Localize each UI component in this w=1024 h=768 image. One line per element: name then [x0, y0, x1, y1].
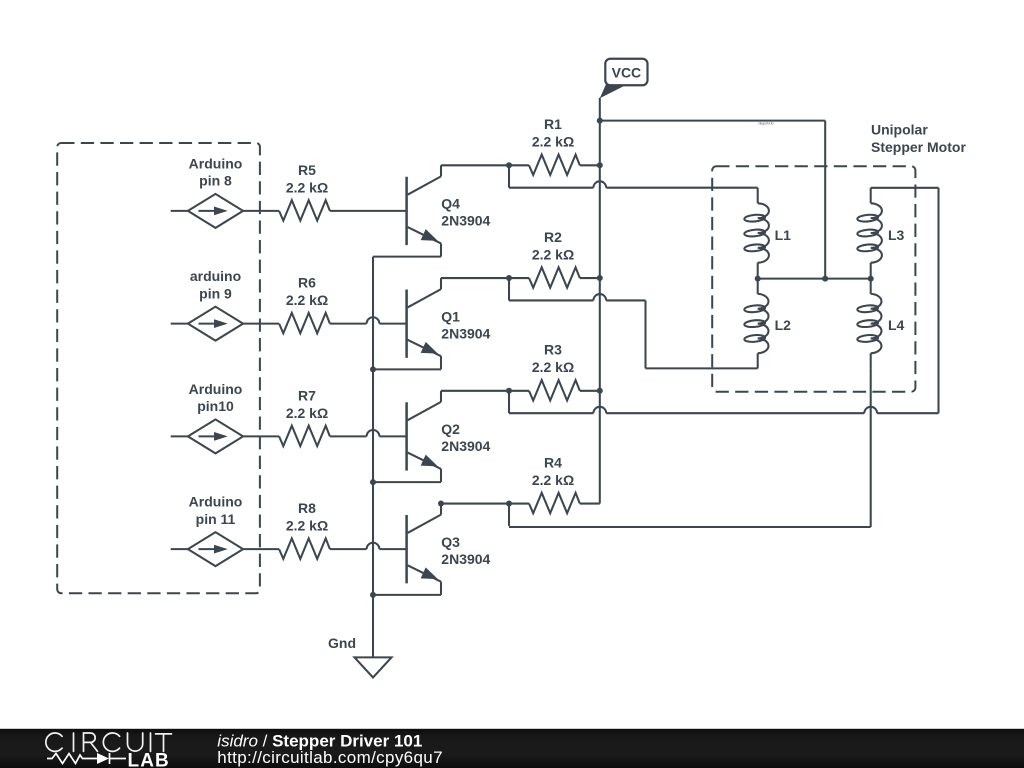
svg-text:pin 8: pin 8 — [199, 173, 232, 189]
wire L3 top horizontal — [871, 187, 939, 189]
wire collector to junction — [441, 503, 509, 505]
resistor R2 — [509, 277, 529, 279]
svg-text:http://circuitlab.com/cpy6qu7: http://circuitlab.com/cpy6qu7 — [217, 748, 443, 767]
resistor R4 — [509, 503, 529, 505]
voltage source (Arduino pin 11) — [171, 532, 243, 566]
junction VCC top — [597, 118, 603, 124]
wire collector to junction — [441, 277, 509, 279]
svg-text:pin 11: pin 11 — [196, 511, 236, 527]
svg-text:Q3: Q3 — [441, 534, 460, 550]
svg-text:VCC: VCC — [612, 65, 642, 81]
wire resistor to base — [330, 323, 367, 325]
svg-text:2.2 kΩ: 2.2 kΩ — [532, 359, 574, 375]
svg-text:L3: L3 — [888, 227, 905, 243]
transistor Q3 2N3904 — [407, 504, 441, 595]
wire resistor to VCC rail — [580, 390, 600, 392]
svg-text:R4: R4 — [544, 454, 562, 470]
label Arduino pin 11 — [189, 494, 243, 527]
label R7 2.2 k&#937; — [286, 387, 328, 421]
svg-text:L1: L1 — [775, 227, 792, 243]
svg-text:Stepper Motor: Stepper Motor — [871, 139, 966, 155]
svg-text:pin 9: pin 9 — [199, 285, 232, 301]
resistor R8 — [279, 538, 330, 559]
svg-text:Stepper Motor: Stepper Motor — [758, 120, 775, 125]
junction on VCC rail — [597, 162, 603, 168]
svg-text:R5: R5 — [298, 162, 316, 178]
wire Q4 collector to L1 top — [509, 187, 593, 189]
wire right vertical to L3 — [937, 188, 939, 413]
svg-text:R2: R2 — [544, 229, 562, 245]
junction on VCC rail — [597, 388, 603, 394]
svg-text:R3: R3 — [544, 342, 562, 358]
label Q4 2N3904 — [441, 196, 490, 229]
svg-text:Q2: Q2 — [441, 421, 460, 437]
transistor Q1 2N3904 — [407, 278, 441, 369]
svg-text:2.2 kΩ: 2.2 kΩ — [286, 292, 328, 308]
junction — [506, 501, 512, 507]
junction — [506, 275, 512, 281]
ground symbol — [355, 657, 392, 677]
inductor L3 — [870, 188, 872, 204]
wire junction drop — [508, 165, 510, 187]
svg-text:2.2 kΩ: 2.2 kΩ — [286, 518, 328, 534]
wire emitter to ground rail — [373, 368, 441, 370]
wire source to resistor — [243, 323, 279, 325]
svg-text:Arduino: Arduino — [189, 494, 243, 510]
wire resistor to base — [330, 548, 367, 550]
label R8 2.2 k&#937; — [286, 500, 328, 534]
inductor L2 — [757, 279, 759, 294]
wire center tap — [758, 278, 871, 280]
wire Q2 collector run — [509, 412, 593, 414]
VCC rail — [599, 98, 601, 504]
CircuitLab logo resistor-diode glyph — [47, 753, 126, 764]
wire Q3 collector run — [509, 526, 871, 528]
svg-text:2N3904: 2N3904 — [441, 213, 490, 229]
svg-text:L2: L2 — [775, 317, 792, 333]
label Unipolar Stepper Motor — [871, 122, 966, 156]
junction center tap L3/L4 — [868, 276, 874, 282]
wire junction drop — [508, 278, 510, 300]
label Arduino pin10 — [189, 381, 243, 414]
svg-text:R6: R6 — [298, 275, 316, 291]
power flag VCC — [600, 59, 648, 98]
svg-text:pin10: pin10 — [197, 398, 234, 414]
voltage source (arduino pin 9) — [171, 307, 243, 341]
wire source to resistor — [243, 435, 279, 437]
voltage source (Arduino pin 8) — [171, 194, 243, 228]
ground rail — [372, 257, 374, 658]
wire junction drop — [508, 391, 510, 413]
transistor Q4 2N3904 — [407, 165, 441, 256]
svg-text:L4: L4 — [888, 317, 905, 333]
label R6 2.2 k&#937; — [286, 275, 328, 309]
wire VCC top horizontal — [600, 120, 825, 122]
wire emitter to ground rail — [373, 256, 441, 258]
svg-text:2N3904: 2N3904 — [441, 325, 490, 341]
wire L4 bottom vertical — [870, 368, 872, 527]
svg-text:R1: R1 — [544, 116, 562, 132]
junction on ground rail — [370, 366, 376, 372]
label Q2 2N3904 — [441, 421, 490, 454]
voltage source (Arduino pin10) — [171, 419, 243, 453]
svg-text:arduino: arduino — [190, 268, 241, 284]
wire Q1 collector run — [509, 299, 593, 301]
wire resistor to VCC rail — [580, 164, 600, 166]
svg-text:Q1: Q1 — [441, 308, 460, 324]
resistor R6 — [279, 313, 330, 333]
label Q3 2N3904 — [441, 534, 490, 567]
wire collector to junction — [441, 390, 509, 392]
svg-text:2.2 kΩ: 2.2 kΩ — [532, 246, 574, 262]
label R5 2.2 k&#937; — [286, 162, 328, 196]
svg-text:Arduino: Arduino — [189, 155, 243, 171]
svg-text:Q4: Q4 — [441, 196, 460, 212]
wire resistor to VCC rail — [580, 503, 600, 505]
svg-text:2.2 kΩ: 2.2 kΩ — [286, 179, 328, 195]
wire to L2 bottom — [646, 367, 758, 369]
stepper motor dashed box — [712, 166, 915, 391]
transistor Q2 2N3904 — [407, 391, 441, 482]
wire resistor to VCC rail — [580, 277, 600, 279]
svg-text:2N3904: 2N3904 — [441, 438, 490, 454]
svg-text:Gnd: Gnd — [328, 635, 356, 651]
wire collector to junction — [441, 164, 509, 166]
resistor R1 — [509, 164, 529, 166]
label arduino pin 9 — [190, 268, 241, 301]
junction on ground rail — [370, 592, 376, 598]
wire resistor to base — [330, 435, 367, 437]
svg-text:R8: R8 — [298, 500, 316, 516]
resistor R3 — [509, 390, 529, 392]
inductor L1 — [757, 188, 759, 204]
wire Q1 drop vertical — [644, 300, 646, 368]
inductor L4 — [870, 279, 872, 294]
CircuitLab logo CIRCUIT — [46, 733, 172, 751]
label Arduino pin 8 — [189, 155, 243, 188]
wire VCC drop to center tap — [824, 121, 826, 279]
junction center tap L1/L2 — [755, 276, 761, 282]
junction on VCC rail — [597, 275, 603, 281]
label Q1 2N3904 — [441, 308, 490, 341]
wire source to resistor — [243, 210, 279, 212]
svg-text:2N3904: 2N3904 — [441, 551, 490, 567]
label R4 2.2 k&#937; — [532, 454, 574, 488]
wire emitter to ground rail — [373, 594, 441, 596]
junction — [506, 162, 512, 168]
resistor R5 — [279, 200, 330, 220]
svg-text:2.2 kΩ: 2.2 kΩ — [286, 405, 328, 421]
junction on ground rail — [370, 479, 376, 485]
label R2 2.2 k&#937; — [532, 229, 574, 263]
svg-text:2.2 kΩ: 2.2 kΩ — [532, 472, 574, 488]
label R3 2.2 k&#937; — [532, 342, 574, 376]
junction center tap VCC — [822, 276, 828, 282]
junction at Q3 collector pin — [438, 501, 444, 507]
Arduino module dashed box — [57, 143, 260, 593]
wire source to resistor — [243, 548, 279, 550]
resistor R7 — [279, 426, 330, 446]
svg-text:2.2 kΩ: 2.2 kΩ — [532, 134, 574, 150]
svg-text:LAB: LAB — [128, 750, 170, 768]
svg-text:R7: R7 — [298, 387, 316, 403]
wire emitter to ground rail — [373, 481, 441, 483]
svg-text:Unipolar: Unipolar — [871, 122, 928, 138]
label R1 2.2 k&#937; — [532, 116, 574, 150]
wire junction drop — [508, 504, 510, 526]
svg-text:Arduino: Arduino — [189, 381, 243, 397]
wire resistor to base — [330, 210, 407, 212]
junction — [506, 388, 512, 394]
